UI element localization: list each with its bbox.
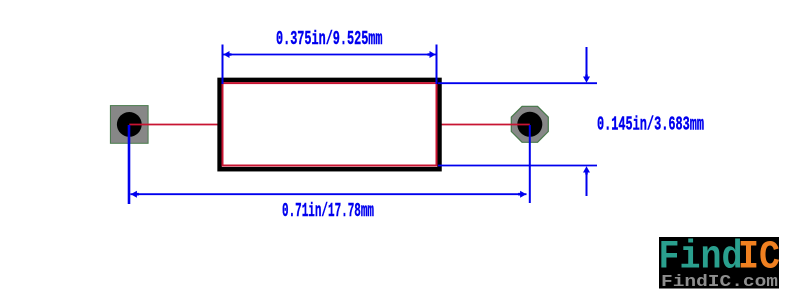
pad 2 (octagonal pad, right) <box>511 106 548 142</box>
dimension: body height extension line bottom <box>438 165 597 167</box>
wire pad1 to body (red leader) <box>129 124 222 126</box>
svg-text:0.375in/9.525mm: 0.375in/9.525mm <box>276 28 383 50</box>
arrowhead left (body width) <box>223 51 231 58</box>
svg-text:0.71in/17.78mm: 0.71in/17.78mm <box>282 200 374 222</box>
dimension: body width extension line left <box>222 45 224 85</box>
dimension: body width extension line right <box>436 45 438 85</box>
dimension: body height extension line top <box>438 82 597 84</box>
dimension: body width line <box>223 54 436 56</box>
dimension: pad pitch extension line left <box>128 125 131 204</box>
resistor body outline (black) <box>220 80 440 169</box>
dimension: body height arrow top (points down) <box>583 47 590 83</box>
pad 1 (square pad, left) <box>110 106 148 144</box>
arrowhead left (pad pitch) <box>131 191 139 198</box>
wire body to pad2 (red leader) <box>437 124 530 126</box>
resistor body courtyard (red) <box>223 83 437 165</box>
svg-text:FindIC.com: FindIC.com <box>661 273 778 292</box>
svg-text:0.145in/3.683mm: 0.145in/3.683mm <box>597 113 704 135</box>
dimension: body height arrow bottom (points up) <box>583 166 590 196</box>
dimension: pad pitch extension line right <box>529 125 531 203</box>
arrowhead right (body width) <box>428 51 436 58</box>
FindIC logo <box>659 235 781 293</box>
dimension: pad pitch line <box>131 193 527 195</box>
arrowhead right (pad pitch) <box>518 191 526 198</box>
